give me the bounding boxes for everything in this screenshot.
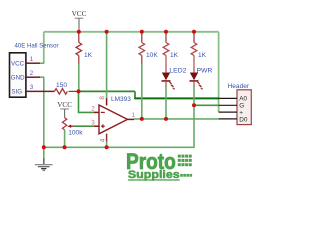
junction dot rail pin8	[105, 30, 109, 34]
svg-text:10K: 10K	[146, 52, 158, 59]
wire rail left drop to hall pin1	[43, 32, 45, 63]
svg-text:1K: 1K	[170, 52, 179, 59]
junction dot rail LED2	[164, 30, 168, 34]
wire SIG junction to step	[79, 91, 136, 98]
ground symbol	[35, 147, 53, 171]
wire G stub to header	[194, 104, 219, 106]
wire 10K bottom to output line	[141, 64, 143, 119]
pin 3 op-amp non-inverting input	[91, 120, 99, 126]
pin G header stub	[219, 104, 237, 106]
LED PWR	[190, 66, 213, 90]
wire VCC to R 1K (LED2)	[165, 32, 167, 43]
component 40E Hall Sensor box	[10, 43, 59, 98]
resistor R2 150 (horizontal)	[54, 82, 77, 94]
svg-text:3: 3	[30, 84, 34, 91]
svg-text:LED2: LED2	[169, 67, 186, 74]
junction dot output LED2	[164, 117, 168, 121]
junction dot SIG node	[77, 89, 81, 93]
junction dot ground G	[192, 103, 196, 107]
wire PWR cathode down to ground line	[44, 87, 194, 148]
junction dot ground 100k	[63, 145, 67, 149]
wire rail right drop to header plus pin	[218, 32, 220, 112]
pin 8 op-amp V+	[99, 96, 106, 106]
wire VCC to R 1K (left)	[78, 32, 80, 43]
svg-text:1K: 1K	[84, 52, 93, 59]
node VCC top symbol	[72, 10, 87, 32]
wire LED2 cathode to output line	[165, 87, 167, 119]
svg-text:PWR: PWR	[197, 67, 213, 74]
resistor R6 1K (PWR column)	[191, 43, 206, 67]
LED LED2	[162, 66, 187, 90]
wire hall GND down to ground line	[43, 77, 45, 147]
op-amp U1 LM393	[99, 96, 131, 134]
logo ProtoSupplies	[126, 149, 192, 181]
wire VCC to R 1K (PWR)	[193, 32, 195, 43]
pin 3 hall SIG	[26, 84, 54, 91]
connector J1 Header	[228, 83, 252, 125]
svg-text:40E Hall Sensor: 40E Hall Sensor	[14, 43, 58, 50]
svg-text:8: 8	[99, 96, 106, 100]
pin 2 hall GND	[26, 70, 44, 77]
junction dot rail PWR	[192, 30, 196, 34]
svg-text:1: 1	[30, 56, 34, 63]
svg-text:SIG: SIG	[11, 89, 22, 96]
resistor R1 1K (left column)	[76, 43, 93, 64]
svg-text:2: 2	[30, 70, 34, 77]
svg-text:2: 2	[91, 107, 95, 113]
wire VCC rail down to op-amp pin 8	[106, 32, 108, 98]
wire VCC to R 10K	[141, 32, 143, 43]
pin 1 op-amp output	[128, 113, 136, 119]
resistor R4 10K	[139, 43, 158, 64]
pin 4 op-amp GND	[99, 134, 106, 148]
pin A0 header stub	[219, 97, 237, 99]
junction dot rail 10K	[140, 30, 144, 34]
wire VCC top rail	[44, 31, 219, 33]
junction dot ground left	[42, 145, 46, 149]
svg-text:VCC: VCC	[57, 101, 72, 109]
wire A0 net (dark green)	[134, 97, 219, 99]
node VCC lower symbol	[57, 101, 72, 118]
wire output to D0	[134, 118, 219, 120]
resistor R5 1K (LED2 column)	[163, 43, 178, 67]
svg-text:1K: 1K	[198, 52, 207, 59]
pin D0 header stub	[219, 118, 237, 120]
junction dot VCC left	[77, 30, 81, 34]
pin plus header stub	[219, 111, 237, 113]
wire R1 bottom to SIG junction	[78, 64, 80, 92]
svg-text:VCC: VCC	[72, 10, 87, 18]
svg-text:VCC: VCC	[11, 60, 25, 67]
svg-text:GND: GND	[11, 74, 25, 81]
svg-text:+: +	[239, 109, 243, 116]
svg-text:100k: 100k	[68, 130, 83, 137]
svg-text:4: 4	[99, 138, 106, 142]
wire 100k wiper to op-amp pin3	[74, 125, 95, 127]
svg-text:Header: Header	[228, 83, 250, 90]
junction dot ground pin4	[105, 145, 109, 149]
pin 2 op-amp inverting input	[91, 107, 99, 113]
svg-text:LM393: LM393	[111, 96, 131, 103]
potentiometer R3 100k	[62, 118, 83, 148]
wire SIG junction down to op-amp pin2	[79, 91, 95, 112]
junction dot output 10K	[140, 117, 144, 121]
svg-text:150: 150	[56, 82, 67, 89]
pin 1 hall VCC	[26, 56, 44, 63]
svg-text:D0: D0	[239, 116, 248, 123]
svg-text:3: 3	[91, 120, 95, 126]
